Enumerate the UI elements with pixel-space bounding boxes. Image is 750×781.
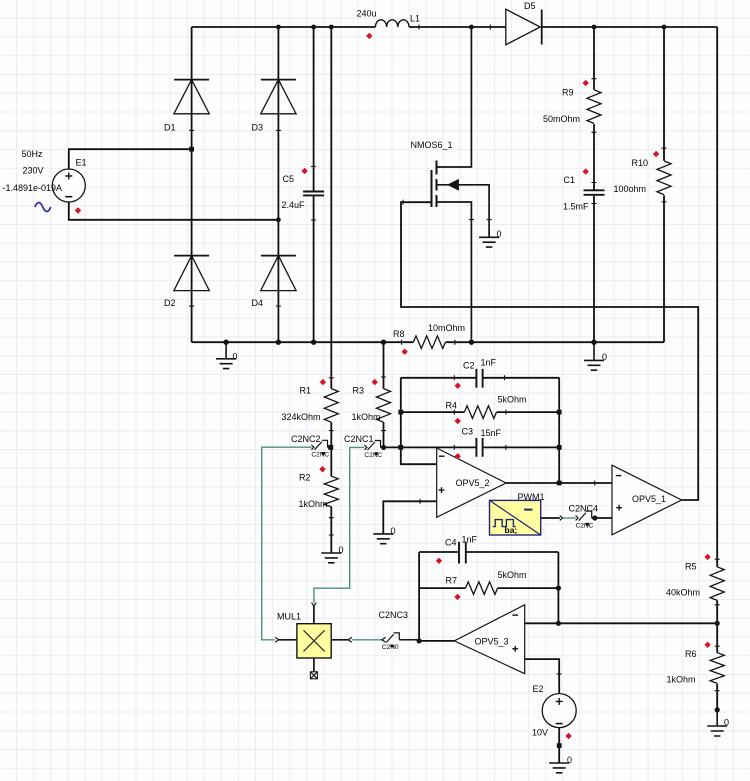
svg-text:0: 0	[567, 755, 572, 765]
resistor R6	[710, 653, 724, 684]
svg-text:1kOhm: 1kOhm	[667, 674, 696, 684]
capacitor C4	[459, 542, 466, 564]
svg-text:OPV5_3: OPV5_3	[475, 637, 509, 647]
svg-text:C4: C4	[445, 538, 457, 548]
svg-text:R8: R8	[393, 329, 405, 339]
inductor L1	[375, 20, 409, 27]
svg-text:D1: D1	[164, 123, 176, 133]
svg-text:D2: D2	[164, 298, 176, 308]
wire bottom rail	[192, 341, 664, 343]
svg-text:C2: C2	[463, 361, 475, 371]
svg-text:PWM1: PWM1	[518, 492, 545, 502]
wire bridge left vertical	[191, 27, 193, 342]
E1 sine symbol	[35, 203, 51, 212]
resistor R8	[413, 336, 445, 349]
capacitor C5	[303, 192, 324, 196]
svg-text:0: 0	[339, 545, 344, 555]
svg-text:C2NC: C2NC	[364, 452, 382, 459]
op-amp OPV5_3	[454, 605, 524, 674]
svg-text:ba;: ba;	[505, 525, 518, 535]
svg-text:C2NC2: C2NC2	[291, 434, 321, 444]
ground R2	[321, 553, 341, 563]
svg-text:R1: R1	[300, 385, 312, 395]
wire signal C2NC2 to MUL1 left	[262, 447, 312, 640]
resistor R9	[587, 90, 601, 124]
svg-text:324kOhm: 324kOhm	[282, 412, 321, 422]
svg-text:0: 0	[497, 229, 502, 239]
svg-text:1nF: 1nF	[462, 535, 478, 545]
wire E1 bottom	[69, 202, 279, 220]
resistor R5	[710, 567, 724, 601]
svg-text:0: 0	[602, 352, 607, 362]
wire opamp3 noninverting to E2	[525, 659, 560, 694]
wire R4 branch	[401, 411, 559, 413]
voltage source E2	[542, 694, 576, 728]
wire opamp2 output to opamp1 input	[506, 482, 612, 484]
wire C4 right vertical	[557, 552, 559, 623]
wire R1 R2 sense branch	[330, 27, 332, 553]
wire bridge right vertical	[277, 27, 279, 342]
svg-text:R9: R9	[562, 87, 574, 97]
svg-text:OPV5_2: OPV5_2	[456, 478, 490, 488]
ground opamp2	[373, 534, 393, 544]
capacitor C3	[476, 438, 482, 457]
resistor R3	[377, 389, 391, 423]
arrow pwm direction	[560, 516, 563, 521]
svg-text:D4: D4	[252, 298, 264, 308]
svg-text:40kOhm: 40kOhm	[666, 588, 700, 598]
diode D1	[174, 80, 209, 114]
resistor R1	[324, 389, 338, 423]
capacitor C1	[584, 190, 605, 195]
svg-text:2.4uF: 2.4uF	[282, 200, 306, 210]
svg-text:10V: 10V	[532, 728, 548, 738]
transistor NMOS6_1	[432, 27, 490, 342]
wire C2 branch	[401, 377, 559, 379]
svg-text:D5: D5	[524, 1, 536, 11]
capacitor C2	[476, 369, 482, 388]
multiplier MUL1	[275, 603, 352, 672]
svg-text:1nF: 1nF	[481, 358, 497, 368]
wire C5 branch	[313, 27, 315, 342]
switch C2NC1	[364, 441, 383, 459]
op-amp OPV5_2	[437, 448, 506, 517]
wire signal PWM1 to C2NC4	[562, 517, 575, 519]
wire R7 branch	[419, 587, 558, 589]
svg-text:R10: R10	[632, 158, 649, 168]
svg-text:-1.4891e-019A: -1.4891e-019A	[3, 183, 63, 193]
svg-text:100ohm: 100ohm	[614, 184, 647, 194]
svg-text:L1: L1	[410, 14, 420, 24]
svg-text:1kOhm: 1kOhm	[352, 412, 381, 422]
ground zero labels	[233, 229, 730, 765]
wire opamp2 noninverting input	[383, 501, 436, 534]
diode D4	[261, 256, 296, 291]
svg-text:5kOhm: 5kOhm	[498, 570, 527, 580]
resistor R7	[466, 582, 498, 595]
wire C4 branch	[419, 551, 558, 553]
switch C2NC3	[382, 633, 419, 651]
wire opamp3 inverting to divider	[525, 622, 718, 624]
svg-text:C3: C3	[462, 426, 474, 436]
diode D2	[174, 256, 209, 291]
svg-text:R4: R4	[446, 401, 458, 411]
ground E2	[549, 763, 569, 773]
resistor R4	[464, 406, 496, 419]
svg-text:OPV5_1: OPV5_1	[632, 494, 666, 504]
pwm block PWM1	[490, 500, 541, 535]
svg-text:R6: R6	[685, 649, 697, 659]
svg-text:50mOhm: 50mOhm	[543, 114, 580, 124]
diode D3	[261, 80, 296, 114]
svg-text:10mOhm: 10mOhm	[428, 323, 465, 333]
ground NMOS body	[479, 237, 499, 247]
svg-text:0: 0	[391, 526, 396, 536]
wire R5 R6 divider branch	[716, 27, 718, 710]
svg-text:D3: D3	[252, 123, 264, 133]
switch C2NC2	[311, 440, 330, 458]
svg-text:E2: E2	[533, 684, 544, 694]
svg-text:MUL1: MUL1	[277, 611, 301, 621]
ground bridge	[216, 342, 236, 368]
wire E2 bottom	[558, 728, 560, 763]
svg-text:1.5mF: 1.5mF	[563, 201, 589, 211]
wire signal C2NC1 to MUL1 top	[314, 447, 364, 602]
svg-text:E1: E1	[76, 158, 87, 168]
wire opamp1 noninverting input	[595, 517, 612, 519]
svg-text:C2NC: C2NC	[311, 452, 329, 459]
wire gate loop	[401, 202, 698, 500]
PROBE DOTS (red diamonds)	[75, 33, 711, 740]
wire opamp2 inverting input	[401, 378, 437, 464]
voltage source E1	[52, 169, 85, 202]
svg-text:230V: 230V	[23, 166, 44, 176]
svg-text:C2NC: C2NC	[576, 522, 594, 529]
svg-text:15nF: 15nF	[481, 428, 502, 438]
node dots round	[223, 25, 719, 713]
svg-text:5kOhm: 5kOhm	[498, 395, 527, 405]
wire E1 top	[69, 149, 192, 169]
svg-text:50Hz: 50Hz	[22, 149, 44, 159]
wire R3 branch	[383, 342, 385, 447]
diode D5	[506, 9, 542, 45]
wire top rail	[192, 26, 718, 28]
svg-text:R7: R7	[446, 576, 458, 586]
wire opamp3 output	[419, 640, 454, 642]
ground C1	[584, 342, 604, 370]
svg-text:C2N0: C2N0	[382, 644, 399, 651]
svg-text:1kOhm: 1kOhm	[299, 499, 328, 509]
wire R10 branch	[663, 27, 665, 342]
PIN TICKS	[189, 25, 720, 691]
op-amp OPV5_1	[612, 465, 682, 535]
svg-text:C2NC4: C2NC4	[569, 504, 599, 514]
svg-text:240u: 240u	[357, 9, 377, 19]
resistor R10	[657, 161, 671, 195]
wire R9 C1 branch	[593, 27, 595, 342]
multiplier bottom terminator	[310, 672, 317, 679]
ground R6	[707, 710, 727, 736]
wire signal MUL1 right to C2NC3	[352, 639, 382, 641]
svg-text:R3: R3	[353, 385, 365, 395]
wire C3 branch	[384, 446, 560, 448]
svg-text:R5: R5	[685, 561, 697, 571]
svg-text:C1: C1	[564, 175, 576, 185]
svg-text:C2NC3: C2NC3	[379, 610, 409, 620]
svg-text:0: 0	[233, 352, 238, 362]
svg-text:0: 0	[724, 717, 729, 727]
svg-text:NMOS6_1: NMOS6_1	[411, 140, 453, 150]
wire pwm output stub	[541, 517, 560, 519]
wire feedback right vertical	[558, 378, 560, 483]
svg-text:C2NC1: C2NC1	[344, 434, 374, 444]
wire C4 left vertical	[418, 552, 420, 641]
switch C2NC4	[576, 511, 595, 529]
svg-text:C5: C5	[283, 174, 295, 184]
svg-text:R2: R2	[299, 473, 311, 483]
node squares	[189, 147, 561, 748]
resistor R2	[324, 476, 338, 507]
